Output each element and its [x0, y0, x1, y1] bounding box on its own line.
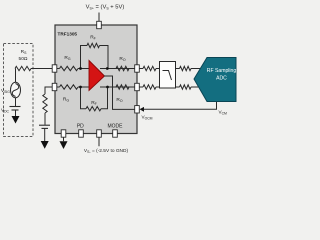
- pin VOCM: [135, 106, 140, 113]
- node IN+ internal wire: [56, 68, 60, 70]
- pin IN-: [52, 83, 57, 90]
- capacitor CT: [39, 124, 50, 126]
- wire RG to amp: [78, 68, 90, 70]
- resistor RG (top): [60, 66, 79, 70]
- resistor RO top: [116, 66, 129, 70]
- arrowhead into VOCM: [140, 107, 145, 112]
- lowpass symbol: [163, 71, 172, 81]
- wire: source bottom to VDC: [15, 98, 17, 107]
- dashed source box: [4, 44, 34, 137]
- resistor RF top: [87, 43, 100, 47]
- RF Sampling ADC block: [194, 58, 236, 102]
- wire filter to ADC row1: [176, 68, 180, 70]
- ground arrow (termination): [41, 141, 49, 149]
- svg-text:VS- = (-2.5V to GND): VS- = (-2.5V to GND): [84, 148, 129, 154]
- wire RG bottom to amp: [56, 86, 90, 88]
- svg-text:50Ω: 50Ω: [19, 56, 28, 62]
- op-amp triangle: [89, 61, 105, 91]
- wire filter to ADC row2: [176, 86, 180, 88]
- feedback loop RF bottom: [81, 87, 87, 109]
- source VSIG (AC source circle): [11, 82, 21, 98]
- wire OUT-: [100, 86, 135, 88]
- pin VS-: [97, 130, 102, 137]
- wire OUT+: [100, 68, 135, 70]
- anti-alias filter box: [160, 62, 176, 89]
- resistor RG (bottom): [60, 85, 79, 89]
- wire OUT- to filter: [139, 86, 143, 88]
- wire VCM to VOCM: [144, 102, 217, 109]
- wire IN- pin to termination: [45, 87, 52, 94]
- wire Rs to IN+ pin: [31, 68, 52, 70]
- svg-text:TRF1305: TRF1305: [58, 32, 78, 37]
- junction dots: [79, 67, 82, 70]
- svg-text:ADC: ADC: [216, 75, 227, 81]
- pin PD: [79, 130, 84, 137]
- pin IN+: [52, 65, 57, 72]
- wire OUT+ to filter: [139, 68, 143, 70]
- pin VS+: [97, 21, 102, 28]
- pin GND: [61, 130, 66, 137]
- wire RT to capacitor: [44, 113, 46, 125]
- svg-text:MODE: MODE: [108, 124, 124, 130]
- wire VS- pin down: [98, 137, 100, 146]
- ground arrow (source): [12, 116, 20, 124]
- resistor Rs: [15, 66, 31, 70]
- pin OUT-: [135, 83, 140, 90]
- svg-text:RF Sampling: RF Sampling: [207, 68, 237, 74]
- resistor RF bottom: [86, 107, 101, 111]
- resistor RT (termination): [43, 94, 47, 113]
- resistor RO bottom: [116, 85, 129, 89]
- battery VDC: [10, 106, 21, 108]
- amplifier block TRF1305: [55, 25, 137, 134]
- feedback loop RF top: [81, 46, 88, 69]
- resistor ext OUT+: [143, 66, 156, 70]
- wire VS+ supply to top pin: [98, 13, 100, 23]
- resistor ext OUT-: [143, 85, 156, 89]
- resistor ADC in-: [180, 85, 192, 89]
- wire: source top to Rs row: [15, 69, 17, 83]
- VOCM internal trace: [104, 76, 135, 109]
- svg-text:PD: PD: [77, 123, 84, 129]
- ground arrow under GND pin: [63, 137, 65, 141]
- wire VDC to ground: [15, 110, 17, 116]
- pin OUT+: [135, 65, 140, 72]
- resistor ADC in+: [180, 66, 192, 70]
- pin MODE: [113, 130, 118, 137]
- wire capacitor to ground: [44, 128, 46, 141]
